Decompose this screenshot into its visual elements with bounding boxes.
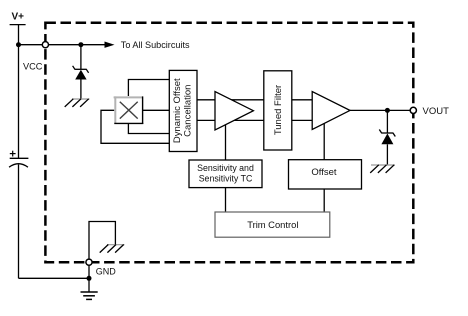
wire: hall right to DOC [143, 109, 170, 111]
block Trim Control [215, 212, 330, 237]
wire: VCC horizontal to subcircuits arrow [19, 44, 107, 46]
wire: Offset to Trim Control [323, 189, 325, 212]
wire: internal ground L-run [89, 222, 115, 259]
wire: amp2 output to VOUT [350, 109, 413, 111]
node junction dot at zener branch [78, 42, 83, 47]
wire: output zener branch [386, 110, 388, 133]
svg-text:VCC: VCC [23, 62, 43, 72]
block Tuned Filter [264, 71, 292, 150]
svg-text:To All Subcircuits: To All Subcircuits [121, 40, 190, 50]
node junction dot at GND [87, 276, 92, 281]
node V+ terminal tick [10, 24, 26, 26]
wire: hall top to DOC [128, 80, 169, 97]
svg-text:Sensitivity and: Sensitivity and [197, 163, 254, 173]
zener diode D2 (output clamp) [379, 130, 395, 165]
svg-text:Dynamic Offset: Dynamic Offset [172, 78, 183, 143]
svg-text:Tuned Filter: Tuned Filter [273, 85, 284, 135]
wire: capacitor to bottom rail [18, 165, 20, 279]
svg-text:VOUT: VOUT [423, 106, 450, 117]
dashed IC boundary [45, 23, 413, 262]
arrowhead To All Subcircuits [105, 42, 115, 48]
node junction dot on V+ rail [16, 42, 21, 47]
wire: GND terminal to earth [88, 262, 90, 292]
wire: tuned filter to amp2 lower input [292, 119, 320, 121]
svg-text:Trim Control: Trim Control [247, 219, 298, 230]
terminal GND [86, 259, 92, 265]
svg-text:Sensitivity TC: Sensitivity TC [199, 173, 253, 183]
zener diode D1 (VCC clamp) [73, 66, 89, 99]
svg-text:Offset: Offset [311, 167, 337, 178]
wire: hall left wrap to DOC [101, 110, 169, 143]
wire: amp2 tap to Offset block [323, 122, 325, 160]
wire: Sensitivity to Trim Control [225, 188, 227, 212]
wire: V+ vertical rail to capacitor [18, 25, 20, 159]
wire: hall bottom to DOC [128, 124, 169, 134]
terminal VOUT [410, 107, 416, 113]
capacitor C1 (+ bypass) [9, 151, 28, 168]
wire: DOC to amp1 upper input / tuned filter [197, 99, 264, 101]
wire: DOC to amp1 lower input / tuned filter [197, 119, 264, 121]
wire: bottom rail to GND [19, 277, 90, 279]
wire: amp1 tap to Sensitivity block [225, 122, 227, 160]
svg-text:Cancellation: Cancellation [183, 85, 194, 137]
node junction dot at output zener [385, 108, 390, 113]
ground earth (GND) [81, 292, 98, 299]
ground chassis (output zener) [370, 165, 395, 173]
op-amp A1 [215, 92, 253, 131]
block DOC Dynamic Offset Cancellation [169, 70, 197, 151]
terminal VCC [42, 42, 48, 48]
op-amp A2 [312, 92, 350, 130]
wire: VCC zener branch [80, 45, 82, 70]
ground chassis (VCC zener) [65, 99, 90, 107]
ground chassis (internal) [100, 245, 125, 253]
wire: tuned filter to amp2 upper input [292, 99, 320, 101]
block Offset [289, 160, 362, 189]
block Sensitivity and Sensitivity TC [189, 160, 262, 188]
svg-text:GND: GND [96, 267, 117, 277]
svg-text:V+: V+ [12, 12, 25, 23]
hall element X1 [114, 96, 144, 124]
